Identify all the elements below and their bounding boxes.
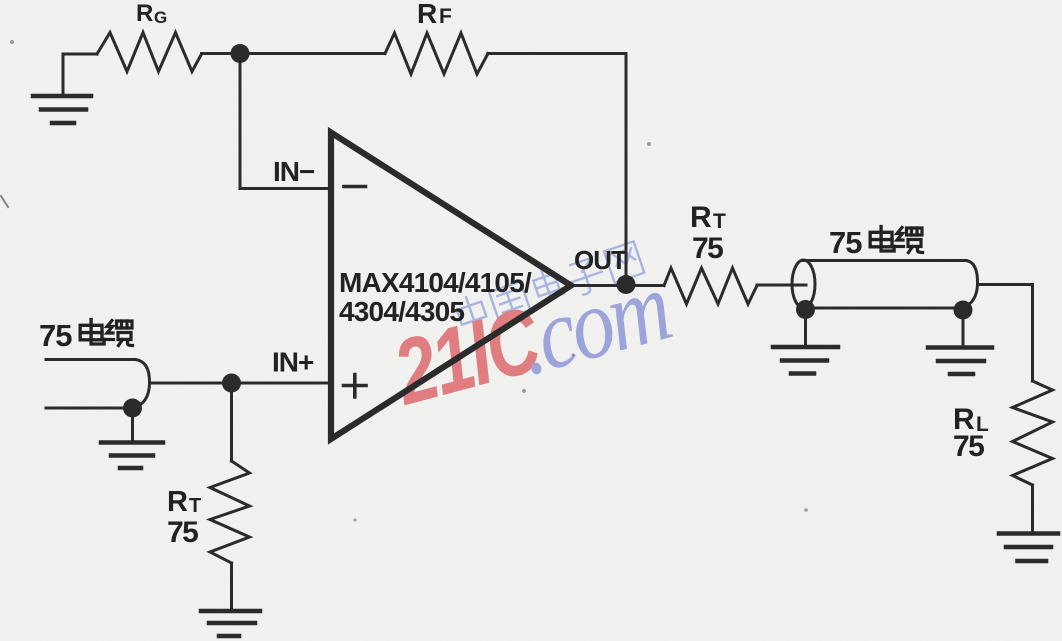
ground GND3 (under RT1) [201,611,260,636]
watermark char guo [489,281,530,320]
wire RT1 to GND3 [230,563,233,608]
watermark char zi [565,256,607,297]
watermark 21IC.com and chinese characters [382,240,680,431]
ground GND2 (under input cable shield) [101,412,163,468]
resistor RG [97,33,202,72]
wire RL to GND6 [1031,485,1034,530]
wire node A down to IN- [240,54,331,189]
ground GND1 (left of RG) [33,54,91,123]
input cable (75 ohm) left symbol [46,360,150,409]
wire op-amp output to RT2 [571,284,664,287]
wire IN+ node down to RT1 [230,383,233,461]
node OUT junction dot [617,275,636,294]
label 75 cable (input) [39,318,133,353]
paper specks [10,40,808,522]
svg-text:T: T [189,495,201,517]
wire RG to node A [202,52,241,55]
resistor RL (load) [1013,381,1053,485]
wire cable center conductor to IN+ [150,382,332,385]
svg-text:R: R [417,0,437,29]
resistor RT2 (output back-termination) [664,268,757,304]
wire down to RL [1031,285,1034,382]
svg-text:75: 75 [167,516,198,549]
stray mark left edge [1,196,8,207]
wire RT2 to cable [757,284,806,287]
left cable shield junction dot [796,300,815,319]
ground GND6 (under RL) [999,534,1058,562]
wire node A to RF [240,52,385,55]
wire RF to top-right corner and down to OUT node [488,54,626,285]
svg-text:4304/4305: 4304/4305 [339,296,464,327]
watermark text 21IC [382,251,680,430]
resistor RT1 (input termination) [210,461,250,563]
svg-text:R: R [167,486,188,518]
svg-text:75: 75 [953,430,984,463]
resistor RF [385,33,488,74]
node IN+ junction dot [222,374,241,393]
svg-text:OUT: OUT [574,245,627,275]
svg-text:F: F [439,5,452,28]
watermark char zhong [454,293,490,335]
svg-text:MAX4104/4105/: MAX4104/4105/ [339,267,532,298]
svg-text:75: 75 [692,232,723,265]
input cable shield junction dot [123,399,142,418]
svg-text:IN+: IN+ [272,347,314,378]
watermark char wang [604,241,644,282]
ground GND4 (left cable shield) [773,314,838,374]
svg-text:IN−: IN− [273,156,315,187]
op-amp U1 MAX4104/4105/4304/4305 [331,133,571,440]
right cable shield junction dot [954,301,973,320]
svg-text:T: T [713,210,726,233]
wire from GND1 to RG [63,53,97,56]
node A junction dot [231,44,250,63]
wire cable output to RL corner [978,283,1033,286]
output cable (75 ohm) symbol [792,260,978,308]
op-amp minus pin mark [344,185,366,189]
watermark char dian2 [531,267,564,302]
svg-text:75: 75 [829,225,862,260]
label 75 cable (output) [829,225,923,260]
svg-text:R: R [690,201,712,234]
svg-text:75: 75 [39,318,72,353]
svg-text:R: R [136,0,153,27]
ground GND5 (right cable shield) [928,314,992,374]
op-amp plus pin mark [344,375,367,398]
svg-text:G: G [154,8,167,27]
